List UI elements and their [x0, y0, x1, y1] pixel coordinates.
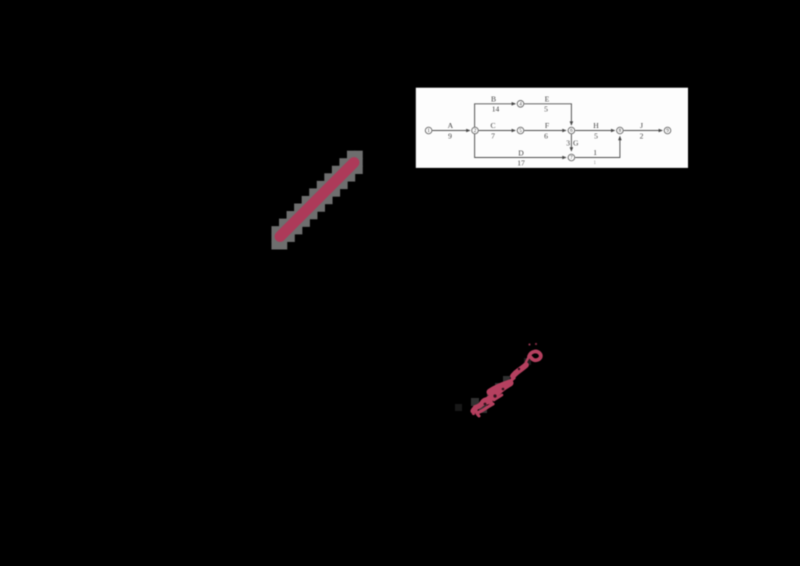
svg-text:C: C	[490, 121, 495, 130]
svg-text:5: 5	[594, 131, 598, 140]
svg-text:D: D	[518, 148, 524, 157]
svg-text:1: 1	[593, 148, 597, 157]
svg-text:6: 6	[570, 128, 573, 134]
svg-text:G: G	[573, 138, 579, 147]
svg-text:17: 17	[517, 158, 525, 167]
svg-text:2: 2	[640, 131, 644, 140]
svg-text:5: 5	[519, 128, 522, 134]
svg-text:E: E	[545, 95, 550, 104]
svg-text:7: 7	[570, 155, 573, 161]
svg-text:1: 1	[427, 128, 430, 134]
svg-text:2: 2	[474, 128, 477, 134]
svg-text:5: 5	[544, 105, 548, 114]
svg-text:H: H	[593, 121, 599, 130]
svg-text:14: 14	[492, 105, 500, 114]
svg-text:J: J	[640, 121, 643, 130]
svg-text:3: 3	[566, 138, 570, 147]
svg-text:9: 9	[448, 131, 452, 140]
svg-text:1: 1	[593, 160, 596, 166]
svg-text:8: 8	[619, 128, 622, 134]
svg-text:6: 6	[544, 131, 548, 140]
svg-text:9: 9	[666, 128, 669, 134]
svg-text:F: F	[545, 121, 549, 130]
svg-text:4: 4	[519, 102, 522, 108]
svg-text:A: A	[448, 121, 454, 130]
svg-text:7: 7	[491, 131, 495, 140]
svg-text:B: B	[491, 95, 496, 104]
